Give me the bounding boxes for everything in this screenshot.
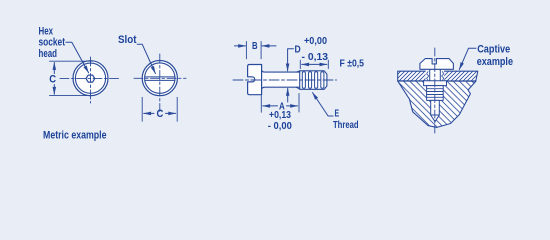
hex socket head: outer circle bbox=[73, 61, 108, 96]
leader to hex socket bbox=[66, 42, 89, 73]
screw: centerline bbox=[233, 79, 337, 81]
svg-text:- 0,13: - 0,13 bbox=[302, 52, 329, 63]
screw body white fill bbox=[248, 65, 262, 95]
svg-text:D: D bbox=[295, 44, 301, 55]
svg-text:Captive: Captive bbox=[477, 44, 510, 56]
captive screw threaded section bbox=[427, 86, 444, 101]
svg-text:C: C bbox=[49, 74, 56, 86]
captive: panel plate (hatched) bbox=[398, 71, 478, 81]
dimension F arrows bbox=[302, 63, 314, 65]
svg-text:+0,13: +0,13 bbox=[269, 110, 291, 121]
svg-text:Hex: Hex bbox=[39, 25, 54, 37]
svg-text:B: B bbox=[252, 41, 258, 52]
svg-text:C: C bbox=[157, 108, 164, 120]
slot lines bbox=[145, 77, 175, 81]
knurl marks at hole edges bbox=[427, 72, 429, 81]
threaded end body bbox=[300, 71, 327, 90]
captive: centerline bbox=[434, 48, 436, 133]
hex socket bbox=[86, 75, 95, 82]
leader to slot bbox=[137, 44, 155, 73]
svg-text:- 0,00: - 0,00 bbox=[268, 121, 292, 132]
thread run-out taper bbox=[296, 71, 300, 89]
hex socket head: centerlines bbox=[60, 57, 121, 103]
svg-text:+0,00: +0,00 bbox=[304, 36, 327, 47]
leader E / Thread bbox=[313, 93, 334, 116]
screw shank edges bbox=[262, 71, 300, 89]
svg-text:head: head bbox=[39, 48, 58, 60]
dimension C (slot view) arrows bbox=[144, 112, 154, 114]
svg-text:socket: socket bbox=[39, 37, 66, 49]
slot head: white disc bbox=[142, 61, 177, 96]
captive screw pin bbox=[431, 100, 440, 115]
svg-text:Slot: Slot bbox=[118, 34, 137, 46]
screw head (side view) with slot bbox=[248, 65, 262, 95]
captive: mounting block (hatched) bbox=[398, 81, 476, 128]
svg-text:example: example bbox=[477, 56, 513, 68]
dimension D leader and arrows bbox=[288, 49, 294, 71]
captive screw collar bbox=[424, 81, 447, 86]
slot head: centerlines bbox=[134, 54, 186, 112]
dimension A arrows bbox=[263, 105, 278, 107]
dimension C (left view) arrows bbox=[53, 63, 55, 74]
captive screw head bbox=[420, 59, 454, 70]
dimension B extension lines bbox=[246, 41, 261, 58]
slot head: inner circle bbox=[145, 63, 175, 93]
label: Hex socket head bbox=[39, 25, 66, 60]
svg-text:Metric example: Metric example bbox=[43, 130, 107, 142]
captive screw shank through plate bbox=[430, 69, 441, 80]
svg-text:E: E bbox=[335, 108, 340, 119]
hex socket head: inner circle bbox=[75, 63, 105, 93]
thread lines in section bbox=[427, 89, 443, 98]
slot head: outer circle bbox=[142, 61, 177, 96]
captive screw tip cone bbox=[431, 115, 440, 122]
hex socket head: white disc bbox=[73, 61, 108, 96]
hole in plate (white) bbox=[426, 71, 445, 82]
dimension C (left view) extension lines bbox=[50, 61, 94, 95]
svg-text:F ±0,5: F ±0,5 bbox=[340, 58, 365, 69]
thread crests bbox=[302, 72, 324, 89]
dimension F extension lines bbox=[300, 60, 328, 68]
dimension B arrows bbox=[235, 45, 246, 47]
dimension C (slot view) extension lines bbox=[142, 97, 177, 121]
leader Captive example bbox=[459, 48, 476, 69]
svg-text:Thread: Thread bbox=[333, 120, 359, 131]
dimension A extension lines bbox=[261, 94, 299, 113]
